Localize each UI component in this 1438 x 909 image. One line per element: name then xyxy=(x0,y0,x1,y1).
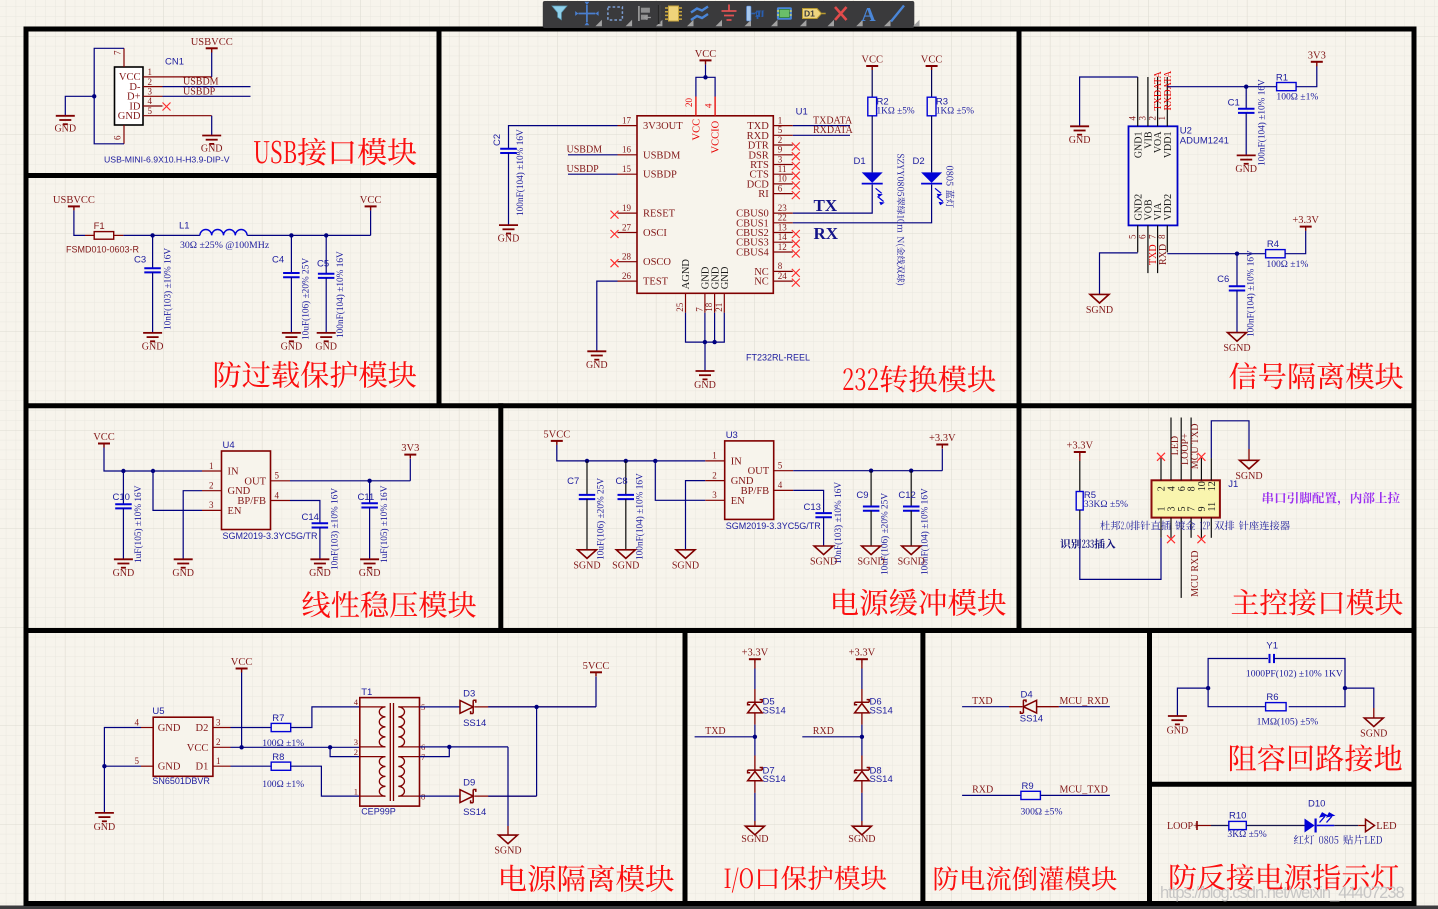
no-connect J1 pin10 xyxy=(1197,453,1205,461)
wire pin5 to GND xyxy=(163,115,212,117)
wire RXD io xyxy=(802,736,862,738)
ground GND TEST xyxy=(587,350,606,352)
signal ground SGND C6 xyxy=(1228,333,1247,342)
T1 primary winding lower xyxy=(379,757,385,797)
svg-text:10uF(106) ±20% 25V: 10uF(106) ±20% 25V xyxy=(596,478,607,560)
wire D4 right stub xyxy=(1037,706,1059,708)
J1 pin 4 stub long xyxy=(1170,418,1172,481)
wire C3 to GND xyxy=(152,272,154,333)
svg-text:+3.3V: +3.3V xyxy=(1066,441,1093,452)
capacitor C14 xyxy=(312,522,329,524)
wire C4 to GND xyxy=(290,277,292,333)
svg-text:1: 1 xyxy=(216,756,221,766)
wire C2 to GND xyxy=(508,153,510,225)
wire sgnd stem rc xyxy=(1373,708,1375,718)
U2 pin 5 line bottom xyxy=(1137,225,1139,252)
U5 pin 1 line xyxy=(213,765,231,767)
svg-text:AGND: AGND xyxy=(681,259,692,290)
U3 pin 1 line xyxy=(705,460,725,462)
U1 pin 28 line xyxy=(618,261,638,263)
svg-text:https://blog.csdn.net/weixin_4: https://blog.csdn.net/weixin_44407238 xyxy=(1160,884,1405,902)
wire 5VCC to IN xyxy=(557,445,705,461)
module title rc loop ground xyxy=(1230,744,1402,771)
U3 pin 3 line xyxy=(705,499,725,501)
wire C9 stem xyxy=(870,471,872,507)
wire C11 stem xyxy=(369,481,371,504)
wire VCC to IN xyxy=(104,448,202,472)
svg-text:OSCO: OSCO xyxy=(643,257,671,268)
svg-text:EN: EN xyxy=(228,506,242,517)
junction shield/GND xyxy=(92,94,96,98)
svg-text:3: 3 xyxy=(148,87,153,97)
wire C1 stem xyxy=(1245,87,1247,109)
T1 pin 8 stub xyxy=(398,795,419,797)
svg-text:4: 4 xyxy=(703,103,713,108)
svg-text:5VCC: 5VCC xyxy=(543,429,570,440)
ground GND C2 xyxy=(499,224,518,226)
inductor L1 xyxy=(200,230,247,236)
wire C12 stem xyxy=(910,471,912,507)
svg-text:RXD: RXD xyxy=(1158,244,1169,265)
svg-text:SGND: SGND xyxy=(857,557,884,568)
junction RXD io xyxy=(860,735,864,739)
svg-text:C7: C7 xyxy=(567,476,579,487)
svg-text:C13: C13 xyxy=(804,502,821,513)
J1 pin 6 stub long xyxy=(1180,418,1182,481)
svg-text:24: 24 xyxy=(778,271,788,281)
svg-text:USBDM: USBDM xyxy=(643,150,681,161)
svg-text:5: 5 xyxy=(778,125,783,135)
svg-text:27: 27 xyxy=(622,222,632,232)
svg-text:1000PF(102) ±10% 1KV: 1000PF(102) ±10% 1KV xyxy=(1246,668,1343,679)
signal ground SGND C13 xyxy=(814,546,833,555)
U1 pin 4 line xyxy=(714,97,716,116)
resistor R4 xyxy=(1266,250,1286,258)
svg-text:SGM2019-3.3YC5G/TR: SGM2019-3.3YC5G/TR xyxy=(726,521,822,531)
diode D3 xyxy=(460,701,473,714)
U1 pin 27 line xyxy=(618,232,638,234)
wire J1 pin12 to SGND xyxy=(1211,421,1249,458)
svg-text:6: 6 xyxy=(1138,234,1148,239)
wire pin1 to USBVCC xyxy=(163,76,212,78)
wire D3 out blue xyxy=(488,706,596,708)
svg-text:OUT: OUT xyxy=(244,476,266,487)
IC U2 ADUM1241 body xyxy=(1129,126,1178,225)
svg-text:MCU RXD: MCU RXD xyxy=(1190,551,1201,597)
wire TXD io xyxy=(695,736,755,738)
wire D2 to R7 xyxy=(231,727,272,729)
svg-text:16: 16 xyxy=(622,145,632,155)
no-connect U1 pin 8 right xyxy=(792,269,800,277)
svg-text:VCC: VCC xyxy=(93,432,115,443)
wire R4 to 3.3V xyxy=(1285,231,1306,254)
no-connect U1 pin 9 right xyxy=(792,152,800,160)
svg-text:6: 6 xyxy=(113,135,123,140)
svg-text:19: 19 xyxy=(622,203,632,213)
wire OUT rail U3 xyxy=(793,470,942,472)
module title reverse LED xyxy=(1170,864,1398,891)
wire VCC to R3 xyxy=(931,70,933,97)
svg-text:3: 3 xyxy=(778,154,783,164)
svg-text:IN: IN xyxy=(228,467,239,478)
wire USBDM xyxy=(163,86,251,88)
wire R1 to 3V3 xyxy=(1296,66,1317,87)
transformer T1 body xyxy=(360,698,420,807)
junction C1 xyxy=(1244,85,1248,89)
svg-text:1: 1 xyxy=(712,451,717,461)
U1 pin 12 line right xyxy=(773,251,793,253)
svg-text:D2: D2 xyxy=(913,156,925,167)
IC U5 SN6501 body xyxy=(153,717,213,776)
wire RXDATA xyxy=(793,134,850,136)
svg-text:C12: C12 xyxy=(898,490,915,501)
U2 pin 4 line top xyxy=(1137,77,1139,126)
junction VCC U5 xyxy=(239,745,243,749)
wire L1 to VCC xyxy=(247,234,370,236)
svg-text:SS14: SS14 xyxy=(763,705,786,716)
svg-text:1uF(105) ±10% 16V: 1uF(105) ±10% 16V xyxy=(379,485,390,563)
J1 pin 7 stub xyxy=(1190,518,1192,538)
svg-text:GND: GND xyxy=(94,822,116,833)
wire to GND xyxy=(65,96,94,116)
wire R8 to T1 pin1 xyxy=(291,766,360,796)
wire up to 3.3V buffer xyxy=(941,449,943,471)
svg-text:R6: R6 xyxy=(1266,692,1278,703)
J1 pin 5 stub xyxy=(1180,518,1182,598)
wire C4 stem xyxy=(290,235,292,273)
CN1 pin 2 line xyxy=(143,86,163,88)
svg-text:CN1: CN1 xyxy=(165,57,184,68)
U1 pin 26 line xyxy=(618,280,638,282)
svg-text:R7: R7 xyxy=(272,713,284,724)
wire T1 pin5 to D3 xyxy=(420,706,460,708)
wire junction to D7 xyxy=(754,737,756,756)
svg-text:GND: GND xyxy=(694,380,716,391)
U3 pin 5 line xyxy=(774,470,794,472)
note J1 connector type xyxy=(1100,521,1290,531)
svg-text:USB-MINI-6.9X10.H-H3.9-DIP-V: USB-MINI-6.9X10.H-H3.9-DIP-V xyxy=(104,155,230,165)
module title anti backflow xyxy=(935,866,1117,891)
T1 secondary winding upper xyxy=(398,707,404,747)
ground GND U1 xyxy=(696,370,715,372)
svg-text:2: 2 xyxy=(148,77,153,87)
wire R2 to D1 xyxy=(871,116,873,173)
svg-text:R10: R10 xyxy=(1229,810,1246,821)
wire up to 3V3 out xyxy=(409,459,411,481)
module title io protection xyxy=(725,865,887,892)
wire C5 stem xyxy=(325,235,327,273)
svg-text:3: 3 xyxy=(1138,116,1148,121)
svg-text:VCC: VCC xyxy=(692,119,703,141)
capacitor C10 xyxy=(115,503,132,505)
svg-text:T1: T1 xyxy=(361,687,372,698)
svg-text:3: 3 xyxy=(209,500,214,510)
wire D4 left stub xyxy=(1009,706,1022,708)
wire R7 to T1 pin4 xyxy=(291,707,360,728)
signal ground SGND rc xyxy=(1364,718,1383,727)
junction C7 xyxy=(585,459,589,463)
T1 pin 2 stub xyxy=(360,756,386,758)
no-connect U1 pin 10 right xyxy=(792,181,800,189)
svg-text:RI: RI xyxy=(758,189,769,200)
svg-text:3: 3 xyxy=(354,737,358,747)
U1 pin 11 line right xyxy=(773,173,793,175)
svg-text:SGND: SGND xyxy=(612,560,639,571)
ground GND C14 xyxy=(310,558,329,560)
svg-text:7: 7 xyxy=(694,307,704,312)
U3 pin 2 line xyxy=(705,480,725,482)
signal ground SGND C12 xyxy=(902,546,921,555)
U3 pin 4 line xyxy=(774,489,794,491)
svg-text:21: 21 xyxy=(714,303,724,312)
U4 pin 1 line xyxy=(202,470,222,472)
ground GND C5 xyxy=(317,332,336,334)
no-connect U1 pin 13 right xyxy=(792,230,800,238)
svg-text:R1: R1 xyxy=(1276,72,1288,83)
svg-text:100nF(104) ±10% 16V: 100nF(104) ±10% 16V xyxy=(634,473,645,560)
wire RXD backflow xyxy=(962,794,1021,796)
wire C9 to SGND xyxy=(870,511,872,546)
ground GND U4 xyxy=(174,558,193,560)
svg-text:4: 4 xyxy=(135,717,140,727)
svg-text:+3.3V: +3.3V xyxy=(742,648,769,659)
CN1 pin 5 line xyxy=(143,115,163,117)
junction gnd bus 1 xyxy=(703,340,707,344)
IC U1 FT232RL body xyxy=(637,116,773,293)
svg-text:TXD: TXD xyxy=(705,726,726,737)
U1 pin 7 line bottom xyxy=(704,293,706,313)
divider left-col/232 xyxy=(437,27,442,406)
svg-text:R9: R9 xyxy=(1022,781,1034,792)
signal ground SGND C9 xyxy=(862,546,881,555)
svg-text:23: 23 xyxy=(778,203,788,213)
signal ground SGND D7 xyxy=(745,826,764,835)
U1 pin 24 line right xyxy=(773,280,793,282)
U4 pin 5 line xyxy=(271,480,291,482)
no-connect U1 pin 3 right xyxy=(792,162,800,170)
svg-text:RXD: RXD xyxy=(813,726,834,737)
diode D8 xyxy=(855,771,870,780)
svg-text:D2: D2 xyxy=(196,723,209,734)
svg-text:D10: D10 xyxy=(1308,798,1325,809)
wire T1 pin2 tap xyxy=(330,747,360,756)
svg-text:USBDP: USBDP xyxy=(183,86,216,97)
application floating toolbar xyxy=(543,1,920,28)
CN1 pin 3 line xyxy=(143,95,163,97)
junction rc right xyxy=(1343,686,1347,690)
resistor R3 xyxy=(927,97,936,116)
svg-text:22: 22 xyxy=(778,213,787,223)
svg-text:GND: GND xyxy=(142,342,164,353)
IC U4 SGM2019 body xyxy=(222,451,271,530)
wire BPFB to C14 xyxy=(290,501,320,524)
svg-text:TX: TX xyxy=(814,196,838,215)
fuse F1 body xyxy=(94,232,114,240)
signal ground SGND J1 xyxy=(1240,460,1259,469)
resistor R6 xyxy=(1266,703,1287,711)
svg-text:100Ω ±1%: 100Ω ±1% xyxy=(262,779,304,790)
capacitor C4 xyxy=(283,272,300,274)
svg-text:4: 4 xyxy=(1128,116,1138,121)
wire LOOP+ to R10 xyxy=(1197,825,1211,827)
resistor R8 xyxy=(271,762,291,770)
wire up to VCC xyxy=(370,210,372,235)
wire U2 pin5 to SGND xyxy=(1100,253,1138,295)
ground GND C3 xyxy=(143,332,162,334)
wire D3 out xyxy=(475,706,597,708)
svg-text:4: 4 xyxy=(148,96,153,106)
U1 pin 3 line right xyxy=(773,164,793,166)
junction C4 xyxy=(289,233,293,237)
svg-text:1: 1 xyxy=(148,67,153,77)
svg-text:C1: C1 xyxy=(1228,97,1240,108)
svg-text:15: 15 xyxy=(622,164,632,174)
J1 pin 8 stub long xyxy=(1190,418,1192,481)
svg-text:1: 1 xyxy=(354,786,358,796)
svg-text:GND: GND xyxy=(1167,726,1189,737)
ground GND C1 xyxy=(1237,154,1256,156)
divider regulator/buffer xyxy=(498,403,503,633)
fuse F1 line xyxy=(85,234,123,236)
junction EN tap xyxy=(151,469,155,473)
svg-text:2: 2 xyxy=(712,470,717,480)
wire sgnd red stem xyxy=(1248,449,1250,460)
svg-text:D1: D1 xyxy=(196,762,209,773)
wire R9 to MCU_TXD xyxy=(1040,794,1110,796)
wire C8 stem xyxy=(625,461,627,495)
svg-text:C8: C8 xyxy=(616,476,628,487)
svg-text:1: 1 xyxy=(209,461,214,471)
svg-text:U3: U3 xyxy=(726,430,738,441)
wire U2 pin4 to GND xyxy=(1080,77,1138,126)
T1 primary winding upper xyxy=(379,707,385,747)
U1 pin 19 line xyxy=(618,212,638,214)
svg-text:5: 5 xyxy=(275,471,280,481)
svg-text:SGND: SGND xyxy=(741,834,768,845)
U1 pin 10 line right xyxy=(773,183,793,185)
wire D10 to LED port xyxy=(1317,825,1335,827)
wire EN loop xyxy=(153,471,202,510)
no-connect J1 pin2 xyxy=(1157,453,1165,461)
junction T1 center tap xyxy=(328,745,332,749)
svg-text:CBUS4: CBUS4 xyxy=(736,248,769,259)
svg-text:RXD: RXD xyxy=(972,785,993,796)
svg-text:2: 2 xyxy=(216,737,221,747)
svg-text:3: 3 xyxy=(712,490,717,500)
junction TXD io xyxy=(753,735,757,739)
svg-text:C2: C2 xyxy=(492,134,503,146)
junction C10 xyxy=(121,469,125,473)
svg-text:GND: GND xyxy=(201,144,223,155)
svg-text:8: 8 xyxy=(1157,234,1167,239)
no-connect J1 pin3 xyxy=(1167,535,1175,543)
svg-text:5: 5 xyxy=(148,106,153,116)
resistor R5 xyxy=(1076,492,1083,511)
divider RC/LED row xyxy=(1147,782,1417,787)
svg-text:SN6501DBVR: SN6501DBVR xyxy=(152,776,210,786)
wire D7 to SGND xyxy=(754,781,756,793)
svg-text:100nF(104) ±10% 16V: 100nF(104) ±10% 16V xyxy=(1257,79,1268,166)
svg-text:VDD1: VDD1 xyxy=(1163,132,1174,159)
svg-text:1MΩ(105) ±5%: 1MΩ(105) ±5% xyxy=(1257,716,1319,727)
U1 pin 21 line bottom xyxy=(723,293,725,313)
wire bus to GND xyxy=(704,342,706,371)
svg-text:GND: GND xyxy=(281,342,303,353)
ground GND usb-right xyxy=(202,135,221,137)
svg-text:C4: C4 xyxy=(272,255,284,266)
no-connect U1 pin 14 right xyxy=(792,240,800,248)
wire T1 pin6 rail xyxy=(420,746,509,748)
J1 pin 2 stub xyxy=(1160,458,1162,480)
svg-text:GND: GND xyxy=(54,124,76,135)
T1 pin 7 stub xyxy=(398,756,419,758)
signal ground SGND U2 xyxy=(1090,294,1109,303)
svg-text:100nF(104) ±10% 16V: 100nF(104) ±10% 16V xyxy=(335,251,346,338)
no-connect U1 pin 12 right xyxy=(792,250,800,258)
U1 pin 22 line right xyxy=(773,222,793,224)
ground GND C10 xyxy=(114,558,133,560)
wire 3.3V to D6 xyxy=(861,663,863,668)
wire OUT rail xyxy=(290,480,410,482)
module title USB interface xyxy=(254,138,416,166)
wire F1 to L1 xyxy=(123,234,199,236)
svg-text:4: 4 xyxy=(275,490,280,500)
J1 pin 1 stub xyxy=(1160,518,1162,538)
svg-text:GND: GND xyxy=(172,568,194,579)
U4 pin 3 line xyxy=(202,509,222,511)
LED D10 arrows xyxy=(1320,816,1325,822)
svg-text:ADUM1241: ADUM1241 xyxy=(1180,136,1229,147)
wire C7 to SGND xyxy=(586,499,588,550)
LED D10 note xyxy=(1294,835,1382,845)
svg-text:L1: L1 xyxy=(179,221,190,232)
svg-text:7: 7 xyxy=(113,50,123,55)
signal ground SGND C8 xyxy=(616,550,635,559)
U1 pin 14 line right xyxy=(773,241,793,243)
wire C12 to SGND xyxy=(910,511,912,546)
svg-text:+3.3V: +3.3V xyxy=(929,433,956,444)
svg-text:100nF(104) ±10% 16V: 100nF(104) ±10% 16V xyxy=(515,129,526,216)
wire shield loop xyxy=(94,48,124,144)
module title overload protection xyxy=(215,361,416,388)
wire D9 up to D3 xyxy=(536,707,538,796)
svg-text:BP/FB: BP/FB xyxy=(741,486,770,497)
capacitor C13 xyxy=(815,512,832,514)
U1 pin 9 line right xyxy=(773,154,793,156)
svg-text:VCC: VCC xyxy=(360,195,382,206)
U1 pin 15 line xyxy=(618,173,638,175)
junction D3/D9 join xyxy=(534,705,538,709)
junction C12 xyxy=(909,469,913,473)
svg-text:1KΩ ±5%: 1KΩ ±5% xyxy=(877,107,915,117)
svg-text:GND: GND xyxy=(118,111,141,122)
U1 pin 5 line right xyxy=(773,134,793,136)
wire C8 to SGND xyxy=(625,499,627,550)
divider isolation/IO xyxy=(683,628,688,906)
svg-text:C10: C10 xyxy=(113,492,130,503)
U1 pin 8 line right xyxy=(773,270,793,272)
svg-text:2: 2 xyxy=(778,135,783,145)
svg-text:VCC: VCC xyxy=(695,49,717,60)
svg-text:A: A xyxy=(861,4,876,26)
no-connect U1 pin 24 right xyxy=(792,279,800,287)
T1 pin 6 stub xyxy=(398,746,419,748)
svg-text:11: 11 xyxy=(778,164,787,174)
svg-text:GND: GND xyxy=(1235,164,1257,175)
ground GND rc xyxy=(1168,715,1187,717)
svg-text:CEP99P: CEP99P xyxy=(361,807,396,817)
svg-text:C14: C14 xyxy=(302,512,319,523)
